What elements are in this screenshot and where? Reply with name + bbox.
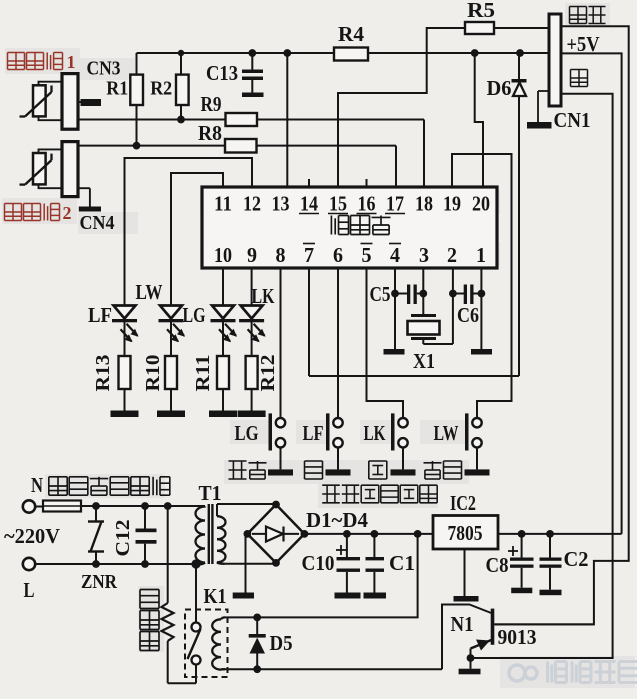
svg-text:IC2: IC2 xyxy=(450,491,476,515)
svg-text:C12: C12 xyxy=(112,520,134,557)
wire pin1 riser xyxy=(480,268,482,349)
svg-text:C13: C13 xyxy=(206,61,238,85)
capacitor C12 xyxy=(144,506,146,529)
connector CN3 xyxy=(62,74,78,130)
svg-text:15: 15 xyxy=(329,192,347,216)
resistor R1 xyxy=(130,75,143,105)
wire CN1 ground to bar xyxy=(538,90,549,92)
wire pin10 to LED LG xyxy=(222,268,224,305)
LED LG xyxy=(212,306,234,319)
label tang xyxy=(369,460,387,462)
svg-text:9: 9 xyxy=(247,243,257,267)
svg-text:12: 12 xyxy=(243,192,261,216)
node emitter xyxy=(467,654,475,662)
LED LW xyxy=(160,306,182,319)
svg-text:LK: LK xyxy=(364,421,386,445)
label fuse xyxy=(49,476,67,478)
wire secondary top to bridge xyxy=(217,503,276,505)
resistor R5 xyxy=(465,22,494,34)
capacitor C2 xyxy=(546,530,554,538)
svg-text:C6: C6 xyxy=(457,303,479,327)
wire button LF to ground xyxy=(337,448,339,470)
wire L line xyxy=(35,563,196,565)
svg-text:6: 6 xyxy=(333,243,343,267)
fuse xyxy=(35,506,43,508)
svg-text:R1: R1 xyxy=(106,78,128,100)
resistor R2 xyxy=(176,75,189,105)
wire rail to relay coil xyxy=(225,534,418,618)
capacitor C5 xyxy=(395,293,408,295)
relay coil xyxy=(212,619,221,632)
wire R8 to pin17 xyxy=(257,145,397,147)
svg-text:7: 7 xyxy=(304,243,314,267)
scan halo patches xyxy=(5,48,80,74)
wire pin15 to R5 xyxy=(338,28,465,187)
svg-text:4: 4 xyxy=(390,243,400,267)
svg-text:X1: X1 xyxy=(413,349,435,373)
diode D6 xyxy=(518,53,520,376)
wire LED to resistor R11 xyxy=(222,322,224,357)
terminal N xyxy=(23,500,35,512)
label zhou xyxy=(305,460,323,462)
wire R2 bottom riser xyxy=(180,105,182,120)
svg-text:D6: D6 xyxy=(487,76,512,100)
svg-text:R2: R2 xyxy=(150,78,172,100)
wire CN1 right ground xyxy=(471,94,613,658)
wire pin3 riser xyxy=(422,268,424,316)
terminal L xyxy=(23,558,35,570)
svg-text:16: 16 xyxy=(358,192,376,216)
wire secondary bottom to bridge xyxy=(225,563,276,565)
capacitor C1 xyxy=(371,530,379,538)
svg-text:11: 11 xyxy=(214,192,232,216)
wire pin2 riser xyxy=(452,268,454,344)
capacitor C6 xyxy=(453,293,464,295)
svg-text:R9: R9 xyxy=(201,92,222,116)
svg-text:18: 18 xyxy=(415,192,433,216)
svg-text:14: 14 xyxy=(300,192,318,216)
svg-text:7805: 7805 xyxy=(448,521,483,545)
node pin4-C5 xyxy=(391,290,399,298)
svg-text:N1: N1 xyxy=(451,612,474,636)
relay K1 dashed box xyxy=(185,610,228,678)
wire CN1 right +5V xyxy=(561,53,622,534)
wire pin12 to LED LF xyxy=(125,158,253,305)
wire +5V top rail xyxy=(137,52,549,54)
label baowen xyxy=(424,462,442,464)
svg-text:CN4: CN4 xyxy=(80,212,115,234)
pin 16 stub xyxy=(366,179,368,187)
label function keys xyxy=(322,484,340,486)
relay switch xyxy=(192,623,201,632)
node junctions on +5V rail xyxy=(178,50,184,56)
svg-text:C8: C8 xyxy=(486,553,509,577)
wire CN4 to R8 line xyxy=(78,145,225,147)
ground under button LF xyxy=(326,469,351,475)
svg-text:1: 1 xyxy=(476,243,486,267)
switch button LK xyxy=(398,418,407,427)
wire button LK to ground xyxy=(402,448,404,470)
node pin1-C6 xyxy=(478,290,486,298)
wire DC rail right of IC2 xyxy=(498,533,622,535)
ground under R10 xyxy=(157,411,185,418)
wire pin6 to button LF xyxy=(337,268,339,418)
svg-text:L: L xyxy=(24,578,35,602)
connector CN1 xyxy=(549,14,561,106)
wire button LG to ground xyxy=(280,448,282,470)
wire IC2 ground xyxy=(464,549,466,596)
svg-text:~220V: ~220V xyxy=(4,524,60,548)
label signal xyxy=(570,6,587,8)
wire switch to heater xyxy=(195,665,197,684)
svg-text:17: 17 xyxy=(386,192,404,216)
ground under button LG xyxy=(268,469,293,475)
varistor ZNR xyxy=(95,506,97,522)
resistor R8 xyxy=(225,139,257,153)
switch button LW xyxy=(472,418,481,427)
wire LED to resistor R12 xyxy=(251,322,253,357)
svg-text:LG: LG xyxy=(235,421,259,445)
resistor R9 xyxy=(226,113,258,126)
node R1-R8 xyxy=(133,142,141,150)
transformer core xyxy=(208,504,210,564)
svg-text:10: 10 xyxy=(214,243,232,267)
wire N line xyxy=(81,505,205,507)
transformer secondary xyxy=(217,516,226,528)
wire R5 to CN1 signal xyxy=(494,27,549,29)
wire resistor R10 to ground xyxy=(170,389,172,411)
LED LF xyxy=(114,306,136,319)
diode D5 xyxy=(256,617,258,634)
svg-text:LF: LF xyxy=(88,303,112,327)
svg-text:5: 5 xyxy=(362,243,372,267)
svg-text:R12: R12 xyxy=(257,355,279,392)
thermistor sensor2 xyxy=(33,153,46,184)
ground under button LW xyxy=(465,469,490,475)
svg-text:CN1: CN1 xyxy=(554,108,591,132)
wire DC rail xyxy=(304,533,433,535)
LED LK xyxy=(241,306,263,319)
node T1 primary bottom xyxy=(191,559,200,568)
ground CN1 xyxy=(527,122,552,129)
svg-text:R13: R13 xyxy=(92,355,114,392)
switch button LF xyxy=(333,418,342,427)
resistor R12 xyxy=(246,356,258,389)
label sensor1 (red) xyxy=(8,52,25,54)
pin 14 stub xyxy=(308,179,310,187)
svg-text:ZNR: ZNR xyxy=(81,571,117,593)
ground under R12 xyxy=(238,411,266,418)
svg-text:N: N xyxy=(31,473,43,497)
transistor N1 xyxy=(491,609,495,645)
resistor R11 xyxy=(217,356,229,389)
svg-text:9013: 9013 xyxy=(498,625,537,649)
svg-text:CN3: CN3 xyxy=(87,58,121,80)
ground pin4 xyxy=(384,349,405,355)
node pin3-C5 xyxy=(419,290,427,298)
capacitor C13 xyxy=(251,53,253,70)
svg-text:13: 13 xyxy=(272,192,290,216)
svg-text:LK: LK xyxy=(252,284,276,308)
capacitor C10 xyxy=(343,530,351,538)
ground CN4 pin xyxy=(78,187,90,189)
svg-text:LF: LF xyxy=(303,421,324,445)
wire pin4 riser xyxy=(394,268,396,349)
IC U1 microcontroller (danpianji) box xyxy=(202,187,497,268)
watermark xyxy=(509,665,525,681)
thermistor sensor1 xyxy=(33,85,46,116)
svg-text:8: 8 xyxy=(276,243,286,267)
svg-text:D1~D4: D1~D4 xyxy=(306,508,368,532)
wire R9 to pin18 xyxy=(257,119,424,121)
ground pin1 xyxy=(471,349,492,355)
svg-text:C10: C10 xyxy=(302,551,335,575)
svg-text:19: 19 xyxy=(443,192,461,216)
ground under R13 xyxy=(111,411,139,418)
node R2-R9 xyxy=(177,116,185,124)
resistor R10 xyxy=(165,356,177,389)
node pin2-C6 xyxy=(449,290,457,298)
ground C13 xyxy=(242,93,264,98)
wire resistor R11 to ground xyxy=(222,389,224,411)
wire heater branch xyxy=(167,506,169,603)
IC2 regulator 7805 xyxy=(433,516,498,550)
wire resistor R12 to ground xyxy=(251,389,253,411)
resistor R4 xyxy=(334,48,368,61)
wire pin5 to button LK xyxy=(367,268,404,418)
resistor R13 xyxy=(119,356,131,389)
capacitor C8 xyxy=(518,530,526,538)
svg-text:LW: LW xyxy=(434,421,459,445)
wire pin20 to +5V xyxy=(475,53,483,187)
svg-text:D5: D5 xyxy=(270,631,293,655)
svg-text:T1: T1 xyxy=(199,481,222,505)
svg-text:R4: R4 xyxy=(338,22,364,46)
connector CN4 xyxy=(62,142,78,197)
ground N1 emitter xyxy=(459,669,481,675)
svg-text:LW: LW xyxy=(136,280,163,304)
svg-text:LG: LG xyxy=(183,303,206,327)
ground under R11 xyxy=(209,411,237,418)
heating plate element xyxy=(162,603,174,641)
wire CN3 signal to R9 line xyxy=(78,119,226,121)
label zhufan xyxy=(229,460,247,462)
svg-text:3: 3 xyxy=(419,243,429,267)
wire CN1 right signal xyxy=(494,26,629,624)
wire R2 top riser xyxy=(180,53,182,75)
wire pin9 to LED LK xyxy=(251,268,253,305)
node heater top xyxy=(164,502,172,510)
label heating plate xyxy=(140,589,159,591)
wire relay switch feed xyxy=(195,564,197,622)
svg-text:1: 1 xyxy=(67,52,76,72)
wire LED to resistor R13 xyxy=(124,322,126,357)
svg-text:R11: R11 xyxy=(192,355,214,392)
ground IC2 xyxy=(454,596,479,602)
wire resistor R13 to ground xyxy=(124,389,126,411)
svg-text:C1: C1 xyxy=(389,551,415,575)
svg-text:R10: R10 xyxy=(142,355,164,392)
svg-text:R8: R8 xyxy=(198,121,222,145)
wire R1 top riser xyxy=(136,53,138,75)
wire crystal to pin2 xyxy=(423,343,453,345)
bridge rectifier D1-D4 xyxy=(247,505,304,563)
wire coil bottom to collector xyxy=(221,668,442,670)
crystal X1 xyxy=(411,314,436,317)
wire pin11 to LED LW xyxy=(171,173,223,305)
wire pin19 to LW button xyxy=(452,154,512,418)
wire pin13 riser to +5V xyxy=(286,53,288,187)
wire button LW to ground xyxy=(476,448,478,470)
svg-text:K1: K1 xyxy=(204,584,227,608)
label sensor2 (red) xyxy=(5,203,22,205)
svg-text:2: 2 xyxy=(63,203,72,223)
ground CN3 pin xyxy=(78,101,85,103)
ground bridge xyxy=(233,593,254,599)
wire pin7 riser xyxy=(308,268,310,376)
svg-text:C5: C5 xyxy=(370,282,391,306)
wire R1 bottom riser xyxy=(136,105,138,146)
node C12 top xyxy=(141,502,149,510)
node ZNR bottom xyxy=(92,560,100,568)
wire bridge minus to ground xyxy=(245,534,247,593)
svg-text:C2: C2 xyxy=(564,547,589,571)
wire pin8 to button LG xyxy=(280,268,282,418)
wire pin7 to D6 line xyxy=(309,375,519,377)
svg-text:2: 2 xyxy=(447,243,457,267)
label ground xyxy=(571,69,588,71)
ground under button LK xyxy=(391,469,416,475)
label danpianji xyxy=(330,216,332,235)
node C12 bottom xyxy=(141,560,149,568)
svg-text:R5: R5 xyxy=(467,0,495,22)
svg-text:20: 20 xyxy=(472,192,490,216)
switch button LG xyxy=(276,418,285,427)
node ZNR top xyxy=(92,502,100,510)
wire LED to resistor R10 xyxy=(170,322,172,357)
